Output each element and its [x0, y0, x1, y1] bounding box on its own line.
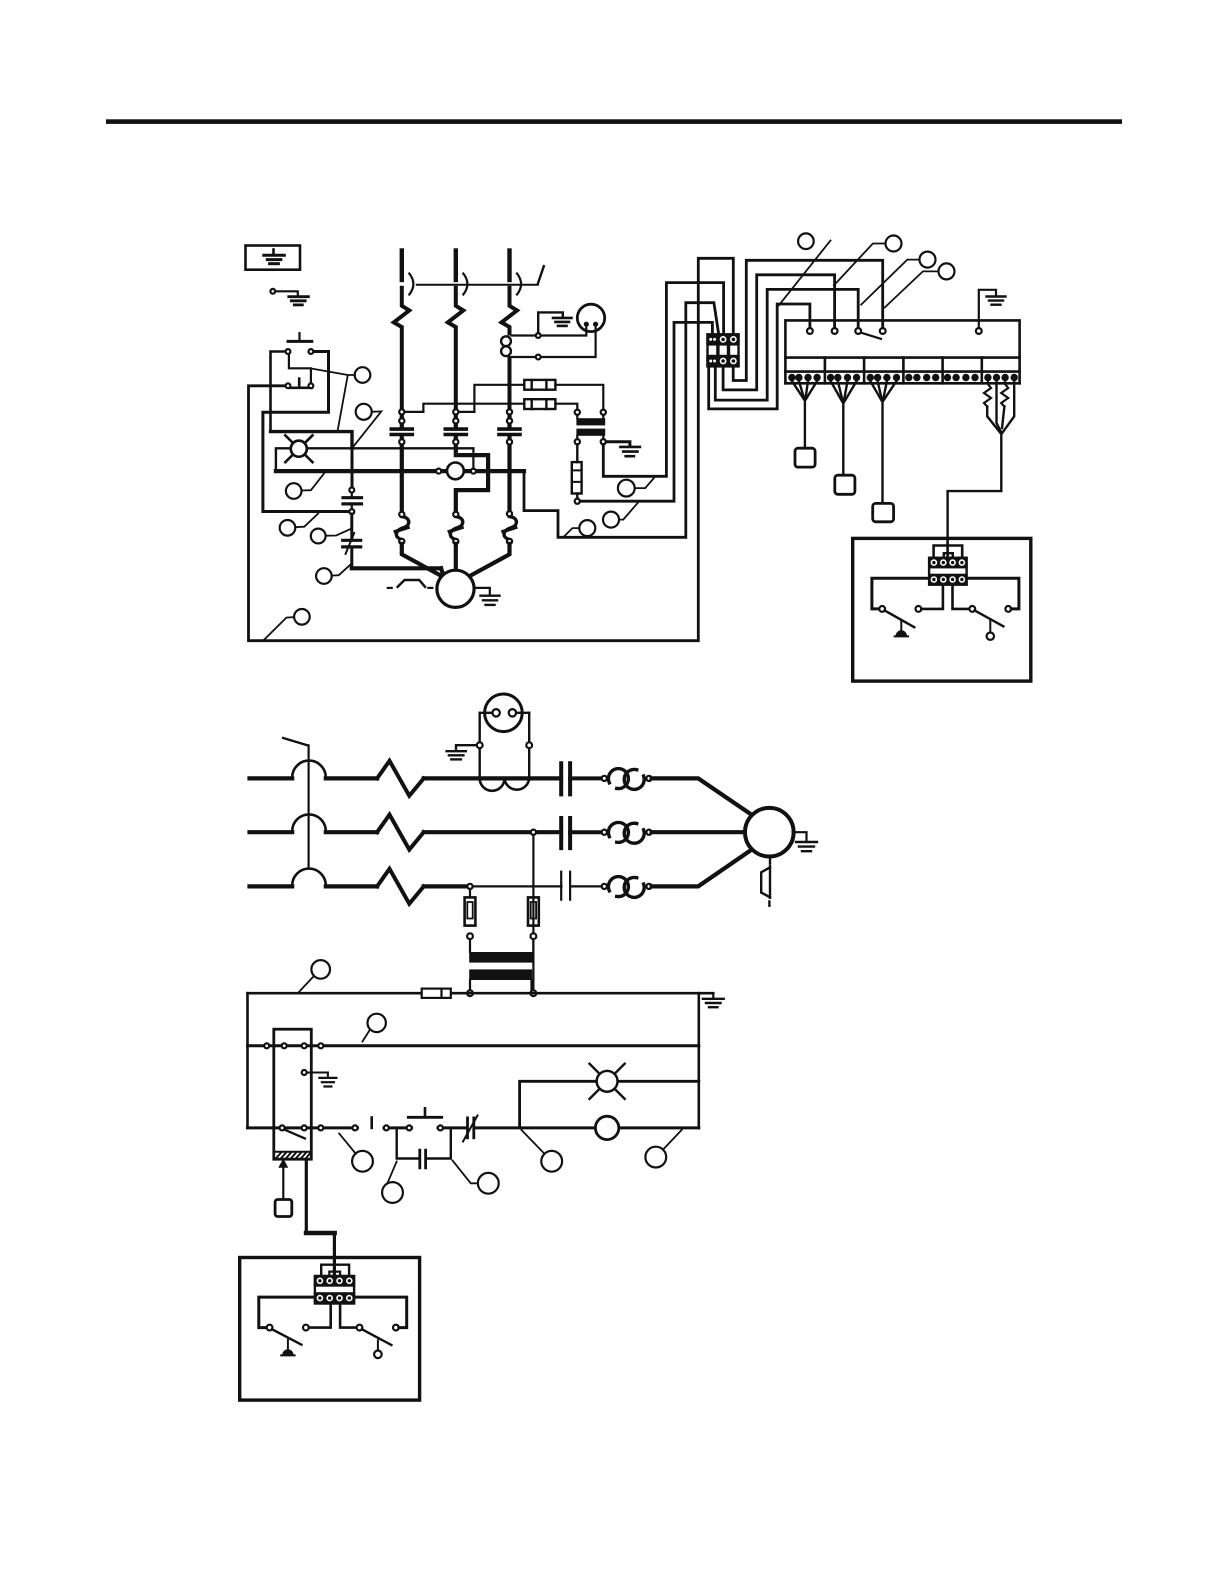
callout balloon — [798, 233, 814, 249]
wire bus step to connector pin feed L3 — [524, 303, 719, 538]
J3 left bus — [259, 1297, 315, 1328]
parallel capacitor branch — [397, 1128, 418, 1159]
callout balloon — [311, 960, 330, 979]
L2 lower run with detour — [456, 436, 488, 514]
callout balloon — [356, 404, 372, 420]
relay box K2 — [835, 475, 855, 494]
wire T1 right to connector pin feed L1 — [603, 283, 723, 477]
L1 lower run — [400, 436, 404, 514]
harness fan 3 — [870, 381, 896, 501]
indicator lamp with X — [285, 435, 312, 462]
contactor main contacts — [391, 429, 520, 434]
breaker zigzags L1 L2 L3 — [394, 288, 517, 411]
relay box heater hatch — [274, 1151, 312, 1153]
main motor ground — [794, 832, 807, 841]
dropper from phase B — [531, 830, 536, 835]
callout balloon — [618, 480, 635, 497]
breaker lever and linkage — [283, 738, 308, 745]
TB1 terminals — [807, 328, 813, 334]
disconnect linkage line and lever — [417, 284, 538, 286]
callout balloon — [939, 263, 955, 279]
breaker arc A — [292, 761, 326, 778]
capacitor branch x=351.8 — [343, 432, 444, 577]
callout balloon — [603, 512, 619, 528]
relay box — [274, 1029, 312, 1159]
resistor R1 — [984, 380, 991, 407]
main motor — [745, 808, 794, 857]
service plug body — [485, 694, 523, 732]
callout balloon — [478, 1173, 499, 1194]
phase C line segments — [250, 884, 293, 888]
service plug leads — [479, 713, 481, 776]
TB1 switch link — [861, 333, 881, 339]
receptacle wires to L3 — [512, 327, 587, 336]
CT coil A — [602, 776, 607, 781]
contactor coil circle on bus — [447, 463, 464, 480]
callout balloon — [886, 236, 902, 252]
remote control box — [853, 538, 1031, 681]
callout balloon — [579, 520, 595, 536]
wire J1 bottom pin to TB1 — [723, 275, 835, 390]
CT loops on L3 — [501, 336, 511, 346]
callout balloon — [280, 520, 296, 536]
capacitor B — [561, 818, 570, 848]
flag ground at receptacle — [538, 312, 563, 333]
remote switch 2 — [953, 586, 970, 609]
start pushbutton — [407, 1125, 412, 1130]
secondary bus — [248, 992, 714, 995]
J3 harness brackets — [321, 1265, 349, 1275]
remote lead into connector J2 — [946, 538, 949, 556]
breaker zigzag B — [377, 815, 424, 850]
relay switch blade — [284, 1130, 305, 1139]
thin wire into coil right terminal — [472, 451, 474, 469]
fuse F2 — [524, 399, 555, 409]
callout balloon — [355, 367, 371, 383]
TB1 wire dots row — [788, 374, 1018, 381]
dropper from phase C — [467, 884, 472, 889]
relay box K1 — [795, 448, 815, 467]
callout balloon — [311, 529, 326, 544]
callout balloon — [541, 1151, 562, 1172]
NC contact — [353, 1125, 358, 1130]
wire relay box to bottom connector — [306, 1160, 334, 1275]
line fuse FB — [528, 897, 539, 925]
phase A line segments — [250, 776, 293, 780]
connector J3 (8-pin) — [314, 1275, 355, 1304]
breaker zigzag C — [377, 869, 424, 904]
J3 switch 1 — [267, 1325, 273, 1331]
terminal S1 contacts — [286, 349, 291, 354]
fuse F1 — [524, 380, 555, 390]
CT coil B — [602, 830, 607, 835]
CT coil C — [602, 884, 607, 889]
callout balloon — [352, 1151, 373, 1172]
wire F3 to connector pin feed L2 — [580, 322, 712, 501]
relay box output arrow — [280, 1160, 288, 1167]
breaker zigzag A — [377, 761, 424, 796]
bottom junction box — [240, 1258, 420, 1401]
control row 1 — [248, 1044, 699, 1047]
terminal board TB1 body — [785, 320, 1019, 383]
callout balloon — [368, 1014, 386, 1032]
connector J2 (8-pin) — [928, 557, 968, 586]
relay coil — [595, 1116, 618, 1139]
wire: S1 top-left to flag line — [271, 352, 286, 432]
callout balloon — [382, 1182, 403, 1203]
motor ground — [474, 588, 489, 595]
series capacitor with slash — [468, 1118, 474, 1138]
callout balloon — [645, 1147, 666, 1168]
callout balloon — [286, 483, 302, 499]
wire J1 bottom pin to TB1 — [715, 289, 858, 400]
wire: S1 top-right loop to capacitor branch — [263, 352, 350, 512]
remote switch 1 — [879, 606, 885, 612]
relay box K3 — [873, 503, 894, 521]
remote left bus — [872, 578, 929, 609]
fuse F1 wires — [459, 385, 525, 412]
harness fan 1 — [792, 381, 817, 446]
receptacle lamp circle — [577, 304, 604, 331]
overload relays OL1 OL2 OL3 — [395, 517, 516, 540]
motor shaft symbol — [388, 587, 392, 589]
thick control bus — [276, 469, 524, 473]
thermal sensor box — [275, 1200, 292, 1217]
pushbutton switch S1 — [288, 333, 312, 388]
control loop verticals — [246, 993, 249, 1128]
earth ground terminal — [270, 289, 308, 305]
capacitor C — [561, 872, 570, 900]
fuse resistor F3 — [576, 444, 578, 462]
control transformer T1 — [575, 410, 580, 415]
phase A middle run — [424, 776, 561, 780]
lamp box top line — [276, 448, 474, 471]
phase terminals above contacts — [402, 411, 510, 428]
transformer T2 secondary — [469, 969, 532, 980]
main motor shaft — [769, 857, 771, 864]
T1 ground — [606, 442, 630, 446]
line fuse FA — [465, 897, 476, 925]
disconnect arcs — [409, 274, 521, 295]
relay ground stub — [302, 1070, 307, 1075]
pilot lamp branch — [520, 1081, 699, 1128]
callout balloon — [920, 252, 936, 268]
callout balloon — [316, 568, 332, 584]
bus fuse — [422, 989, 451, 998]
harness fan 2 — [831, 381, 857, 473]
wire J1 bottom pin to TB1 (outermost) — [709, 304, 810, 409]
chassis ground symbol in box — [246, 246, 301, 270]
breaker arc B — [292, 814, 326, 831]
connector J1 (6-pin) — [706, 333, 739, 367]
phase B line segments — [250, 830, 293, 834]
pilot lamp with X — [590, 1064, 625, 1099]
TB1 ground — [979, 290, 996, 328]
control row 2 — [248, 1126, 358, 1129]
J3 switch 2 — [340, 1305, 357, 1328]
fuse F2 wires — [405, 404, 525, 412]
capacitor A — [561, 763, 570, 794]
wire: S1 lower-left to big loop — [249, 258, 734, 640]
wire J1 bottom pin to TB1 (innermost) — [733, 260, 883, 380]
wire: flag line to lamp box — [271, 432, 353, 449]
resistor R2 — [1001, 380, 1008, 407]
three-phase columns L1 L2 L3 — [402, 251, 510, 281]
plug ground — [456, 745, 477, 750]
motor leads — [402, 544, 443, 577]
callout balloon — [294, 609, 310, 625]
motor M — [437, 570, 474, 607]
phase C middle run — [424, 884, 466, 888]
service plug loops — [480, 778, 505, 790]
L3 lower run — [507, 436, 511, 514]
page top rule — [106, 119, 1122, 124]
transformer T2 primary — [469, 952, 534, 963]
bus ground — [712, 993, 714, 998]
breaker arc C — [292, 869, 326, 886]
harness chevron to remote lead — [948, 381, 1015, 536]
J2 harness brackets — [934, 546, 963, 557]
phase B middle run — [424, 830, 561, 834]
